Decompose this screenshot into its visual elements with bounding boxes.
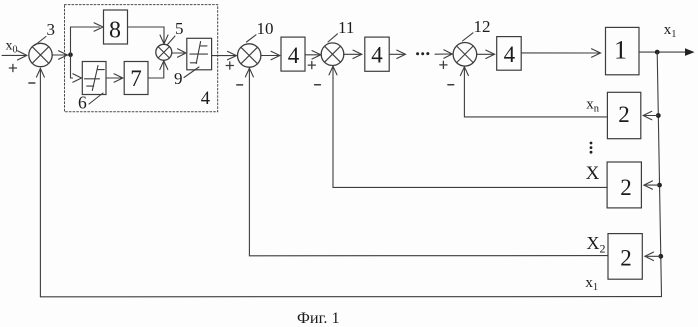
wire tap into block 2b bbox=[646, 184, 660, 186]
svg-text:2: 2 bbox=[618, 102, 630, 127]
svg-text:4: 4 bbox=[201, 89, 210, 109]
svg-text:1: 1 bbox=[614, 36, 627, 65]
block 4c bbox=[497, 37, 522, 71]
svg-text:2: 2 bbox=[620, 175, 632, 200]
vertical ellipsis bbox=[590, 142, 593, 145]
block 6 bbox=[82, 62, 106, 95]
svg-text:9: 9 bbox=[174, 69, 183, 88]
svg-text:6: 6 bbox=[78, 92, 87, 112]
block 8 bbox=[104, 10, 128, 44]
wire block 4b to ellipsis bbox=[389, 53, 403, 55]
plus sign at junction 3 bbox=[9, 64, 16, 71]
svg-text:X: X bbox=[586, 163, 600, 184]
wire block 9 to summing junction 10 bbox=[212, 55, 236, 57]
svg-text:7: 7 bbox=[130, 66, 142, 91]
wire ellipsis to summing junction 12 bbox=[435, 53, 451, 55]
block 7 bbox=[124, 62, 148, 95]
wire block 1 output bbox=[639, 51, 686, 53]
wire block 6 to block 7 bbox=[106, 77, 122, 79]
wire X2 feedback to junction 10 bbox=[249, 68, 608, 256]
block 4a bbox=[281, 37, 305, 71]
summing junction 3 bbox=[29, 43, 52, 66]
wire block 7 to summing junction 5 bbox=[148, 62, 164, 79]
summing junction 12 bbox=[453, 43, 477, 67]
wire block 4c to block 1 bbox=[521, 52, 599, 54]
node A branch dot bbox=[68, 52, 73, 57]
wire x1 feedback up into junction 3 bbox=[39, 69, 41, 297]
block 2a bbox=[607, 92, 640, 138]
output arrowhead (filled) bbox=[685, 48, 695, 56]
minus sign at junction 10 bbox=[237, 84, 243, 86]
wire input to summing junction 3 bbox=[2, 54, 26, 56]
dashed box 4 bbox=[65, 5, 218, 112]
svg-text:3: 3 bbox=[47, 20, 56, 39]
summing junction 11 bbox=[321, 43, 344, 66]
svg-text:10: 10 bbox=[257, 19, 274, 38]
node tap X dot bbox=[657, 183, 662, 188]
svg-text:4: 4 bbox=[288, 43, 300, 68]
wire tap into block 2c bbox=[647, 255, 661, 257]
plus sign at junction 12 bbox=[440, 61, 447, 68]
block 1 bbox=[606, 27, 640, 74]
node output dot bbox=[655, 50, 660, 55]
wire junction 10 to block 4a bbox=[261, 55, 278, 57]
wire junction 3 to node A bbox=[52, 54, 70, 56]
block 9 bbox=[187, 38, 212, 70]
svg-text:4: 4 bbox=[504, 42, 516, 67]
wire block 8 to summing junction 5 bbox=[128, 27, 165, 43]
block 2b bbox=[607, 162, 641, 208]
svg-text:Фиг. 1: Фиг. 1 bbox=[297, 308, 340, 327]
wire junction 12 to block 4c bbox=[477, 53, 493, 55]
wire x1 feedback right column bbox=[657, 52, 661, 297]
summing junction 5 bbox=[156, 44, 172, 60]
wire tap into block 2a bbox=[645, 115, 658, 117]
block 4b bbox=[365, 37, 389, 71]
summing junction 10 bbox=[238, 44, 261, 67]
minus sign at junction 11 bbox=[315, 84, 321, 86]
minus sign at junction 12 bbox=[448, 84, 454, 86]
svg-text:11: 11 bbox=[338, 18, 354, 37]
wire node A up to block 8 bbox=[71, 27, 100, 55]
node tap xn dot bbox=[656, 113, 661, 118]
svg-text:2: 2 bbox=[620, 246, 632, 271]
wire x1 feedback bottom run bbox=[40, 296, 661, 298]
wire junction 11 to block 4b bbox=[344, 53, 360, 55]
minus sign at junction 3 bbox=[29, 82, 35, 84]
plus sign at junction 11 bbox=[308, 62, 315, 69]
wire X feedback to junction 11 bbox=[333, 66, 607, 187]
ellipsis dots bbox=[416, 52, 419, 55]
svg-text:12: 12 bbox=[474, 17, 491, 36]
wire summing junction 5 to block 9 bbox=[172, 52, 184, 54]
svg-text:5: 5 bbox=[175, 19, 184, 38]
block 2c bbox=[608, 234, 642, 280]
svg-text:8: 8 bbox=[109, 17, 121, 43]
plus sign at junction 10 bbox=[226, 62, 233, 69]
svg-text:4: 4 bbox=[371, 43, 383, 68]
wire node A down to block 6 bbox=[71, 55, 73, 78]
wire block 4a to summing junction 11 bbox=[305, 54, 320, 56]
wire xn feedback to junction 12 bbox=[464, 67, 607, 117]
node tap X2 dot bbox=[658, 254, 663, 259]
